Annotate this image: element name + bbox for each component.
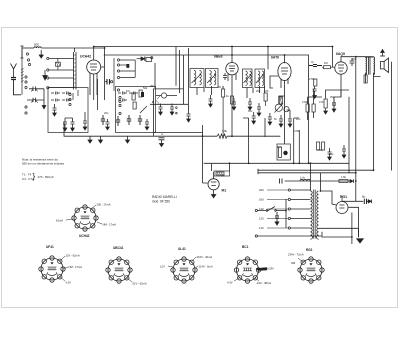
mid vertical wires [243, 118, 299, 163]
capacitor C5 with ground [106, 119, 110, 130]
capacitor C1 [101, 115, 105, 125]
resistor V2 cathode [230, 96, 233, 104]
V4 cathode resistor [324, 97, 327, 111]
wire speaker connections [366, 57, 381, 170]
resistor M1 input [216, 172, 224, 175]
zigzag resistor AVC [217, 134, 227, 138]
caps row box B [118, 92, 138, 102]
tube socket S1 UCH42 [72, 205, 98, 231]
callout S4 right [195, 266, 198, 268]
wire ground bus left section [64, 135, 280, 137]
ground M1 [211, 195, 215, 198]
power transformer T4 primary [311, 191, 313, 239]
svg-text:1M: 1M [324, 61, 328, 65]
svg-text:L th: L th [300, 176, 305, 180]
svg-text:140: 140 [259, 207, 264, 211]
svg-text:6,8k: 6,8k [222, 129, 228, 133]
svg-text:125: 125 [259, 217, 264, 221]
svg-text:20n: 20n [352, 57, 357, 61]
oscillator trimmer cluster [132, 90, 147, 113]
speaker top arrow [380, 50, 385, 57]
trimmer dark blob [126, 64, 129, 68]
filter cap 8u [364, 199, 368, 204]
padder box b [146, 58, 152, 62]
IF transformer T1 secondary [206, 69, 219, 88]
wire bus1 drop to V4 grid [332, 47, 334, 68]
cap box A inner [53, 104, 57, 116]
svg-text:mod. 9F 550: mod. 9F 550 [152, 200, 170, 204]
svg-text:m: m [161, 133, 163, 136]
svg-text:}: } [33, 172, 36, 181]
cap under pot b [288, 115, 292, 127]
wire heater bus [258, 169, 374, 174]
mains switch S2 [257, 207, 286, 212]
B line arrow [350, 179, 353, 183]
switch ladder [120, 60, 135, 78]
svg-text:1,5k: 1,5k [341, 175, 347, 179]
wire gang common [42, 89, 46, 109]
ground under L1 [39, 50, 43, 58]
callout S5 bottom right [255, 278, 259, 281]
speaker field coil [374, 57, 375, 75]
resistor det lower b [322, 142, 325, 150]
grid cap V1 [105, 79, 113, 85]
capacitor C3 [127, 115, 131, 125]
svg-text:470k: 470k [302, 100, 308, 104]
tube V2 6BE6 [226, 62, 238, 84]
wire V4 junction [326, 90, 349, 99]
output transformer T3 [366, 57, 371, 75]
ground coil tap [43, 70, 47, 80]
callout S4 left [168, 266, 173, 267]
svg-text:51V - 62mA: 51V - 62mA [133, 282, 147, 286]
caps row y115 b [268, 113, 272, 125]
IF transformer T1 primary [190, 69, 204, 88]
capacitor C6 with ground [145, 119, 149, 130]
capacitor C4 [138, 115, 142, 125]
svg-text:6AQ5: 6AQ5 [336, 52, 345, 56]
svg-text:UCH42: UCH42 [80, 55, 91, 59]
band switch wafer S1c [114, 58, 121, 115]
wire output transformer feed [341, 56, 374, 59]
svg-text:234V - 72mA: 234V - 72mA [288, 253, 304, 257]
svg-text:4,2V: 4,2V [66, 281, 72, 285]
ground stub left3 [126, 136, 130, 143]
wire plate drop [75, 48, 105, 67]
value label sprinkle [104, 57, 357, 179]
resistor 100k tap [56, 59, 61, 71]
callout S2 right top [60, 256, 65, 261]
osc wire verticals [150, 48, 189, 136]
V4 cathode cap [332, 99, 336, 109]
svg-text:160: 160 [259, 198, 264, 202]
svg-text:270k: 270k [309, 77, 315, 81]
cap near x344 [342, 145, 346, 158]
svg-text:25µ: 25µ [330, 95, 335, 99]
wire avc [154, 125, 208, 183]
svg-text:NM - 17mA: NM - 17mA [69, 265, 83, 269]
svg-text:+23V: +23V [268, 267, 275, 271]
tube socket S6 [298, 257, 324, 283]
wire mains bottom bus [257, 232, 322, 236]
wire lower bus AVC [204, 162, 349, 164]
svg-text:50n: 50n [248, 109, 253, 113]
cap IFT2 bottom [257, 103, 261, 116]
tube V4 6AQ5 [335, 62, 347, 97]
svg-text:214V - 5mA: 214V - 5mA [199, 265, 213, 269]
svg-text:T1 - T4: T1 - T4 [22, 173, 32, 177]
mid cluster cap2 [170, 104, 174, 116]
resistor on B+ line [339, 180, 348, 183]
wire tube V3 top stem [284, 55, 286, 63]
antenna coil L2 [74, 48, 77, 90]
svg-text:NM - 17mA: NM - 17mA [103, 223, 117, 227]
wire verticals to ground bus [98, 63, 323, 144]
wire tube V4 stem [340, 57, 342, 62]
wire tube V2 top stem [231, 47, 233, 63]
tube socket S3 [106, 257, 132, 283]
tube socket S2 [39, 256, 65, 282]
wire right edge return [391, 62, 393, 170]
IF transformer T2 secondary [255, 69, 265, 88]
volume potentiometer [275, 104, 290, 113]
wire secondary riser [320, 173, 322, 192]
resistor below OT [364, 75, 367, 83]
speaker LS1 [381, 58, 389, 73]
ground V4 cathode [324, 111, 328, 114]
wire drop x347 [348, 97, 350, 173]
wire B+ filter line [285, 180, 350, 182]
capacitor on bus with ground [159, 138, 165, 147]
caps row y115 [252, 112, 256, 124]
coupling cap 7p [309, 65, 322, 67]
svg-text:50k: 50k [143, 86, 148, 90]
tube socket S4 [171, 257, 197, 283]
diode arrow osc [137, 57, 145, 62]
callout S2 bottom [60, 277, 65, 281]
svg-text:4,3V: 4,3V [227, 281, 233, 285]
ground stub left2 [99, 136, 103, 143]
caps left of box c [83, 117, 87, 130]
resistor horizontal grid V4 [322, 66, 335, 69]
B plus arrow terminal [368, 200, 371, 204]
coupling cap V2 grid [223, 73, 227, 80]
coil box B oscillator [116, 87, 156, 133]
rectifier tube RG1 [336, 202, 348, 214]
cap 4n on B+ line [280, 179, 283, 184]
resistor under T1 [222, 86, 225, 136]
svg-text:UF41: UF41 [46, 245, 54, 249]
ground stub left1 [88, 136, 92, 143]
IF transformer T2 primary [243, 69, 253, 88]
band switch wafer S1a [21, 49, 31, 114]
mid cluster cap1 [159, 104, 163, 116]
selector common wire [285, 199, 287, 228]
wire left bus riser [64, 112, 85, 136]
svg-text:25n: 25n [150, 84, 155, 88]
volume pot box [277, 144, 290, 160]
wire primary riser [309, 163, 311, 191]
rectifier wiring [319, 191, 364, 244]
power transformer T4 secondary [317, 191, 319, 239]
svg-text:470: 470 [319, 100, 324, 104]
cap under V2 with ground [232, 98, 236, 110]
callout S3 bottom right [127, 278, 132, 282]
pickup tube M1 [208, 179, 219, 195]
wire drop x356 [355, 57, 357, 201]
antenna symbol [11, 64, 17, 78]
svg-text:22V - 62mA: 22V - 62mA [66, 254, 80, 258]
cap T2 ground [248, 98, 252, 110]
svg-text:100: 100 [264, 89, 269, 93]
tuning gang C-var a [29, 87, 44, 92]
wire top B+ bus [94, 46, 333, 48]
svg-text:BC1: BC1 [242, 245, 249, 249]
wire bus2 right drop [308, 55, 310, 163]
phono box [214, 171, 230, 176]
wire second bus [104, 54, 309, 56]
svg-text:UL41: UL41 [178, 247, 186, 251]
svg-text:M1: M1 [222, 189, 227, 193]
wire M1 box riser [228, 163, 230, 171]
ground V4 cap [332, 109, 336, 112]
caps left of box b [71, 118, 75, 131]
antenna coil L1 500 [21, 46, 75, 58]
caps row box A [51, 90, 78, 102]
mains terminal circles [255, 209, 257, 237]
svg-text:216V - 40mA: 216V - 40mA [197, 255, 213, 259]
line Lth choke [300, 179, 310, 181]
resistor det lower a [317, 142, 320, 150]
callout S4 top right [192, 257, 196, 261]
mains filter cap [275, 212, 279, 225]
coil box A antenna [48, 88, 88, 133]
tap voltage labels [259, 188, 264, 230]
svg-text:-24V - 38mA: -24V - 38mA [256, 281, 271, 285]
svg-text:6AT6: 6AT6 [271, 56, 279, 60]
ground cap under T1 [209, 95, 213, 107]
svg-text:20n: 20n [256, 89, 261, 93]
capacitor antenna series [11, 78, 21, 95]
oscillator trimmer [154, 89, 184, 114]
capacitor C2 [116, 116, 120, 126]
ground rectifier [357, 239, 364, 243]
wire screen stub [104, 47, 106, 100]
spec bracket text [22, 172, 54, 181]
wire tube V1 plate stem [93, 47, 95, 61]
volume pot knob [283, 151, 287, 155]
tuning gang C-var b [27, 98, 44, 103]
svg-text:500: 500 [34, 43, 39, 47]
svg-text:470 - 500 pF: 470 - 500 pF [38, 175, 55, 179]
tone cap 20n [350, 58, 355, 66]
arrow into S5 [256, 268, 267, 271]
transformer taps [267, 189, 311, 229]
callout S2 right mid [63, 267, 68, 269]
wire trimmer feed [175, 47, 177, 86]
svg-text:12V: 12V [160, 265, 165, 269]
svg-text:8µ: 8µ [362, 195, 366, 199]
svg-text:220: 220 [259, 188, 264, 192]
svg-text:RG1: RG1 [340, 195, 347, 199]
terminal circles box A top [69, 93, 71, 105]
tube V1 UCH42 [87, 60, 101, 100]
power transformer T4 core [314, 190, 316, 239]
tube socket S5 [234, 257, 260, 283]
callout S1 left [66, 219, 73, 220]
svg-text:6BE6: 6BE6 [214, 55, 223, 59]
svg-text:RG1: RG1 [306, 248, 313, 252]
osc cap ground [187, 111, 191, 122]
resistor right of V2 [264, 93, 267, 106]
V3 grid resistor [279, 97, 282, 105]
V3 grid loop [270, 76, 278, 88]
callout S1 top right [91, 205, 96, 209]
cap det lower ground [328, 148, 332, 160]
core marker box B [141, 92, 144, 97]
caps left of box a [63, 118, 67, 131]
wire IFT2 feed [267, 47, 269, 70]
detector resistor 470k [306, 79, 317, 112]
callout S5 bottom left [234, 278, 239, 281]
svg-text:200 - 17mA: 200 - 17mA [97, 203, 111, 207]
osc section circle [151, 57, 153, 59]
wire M1 riser [212, 163, 214, 178]
cap under pot a [279, 115, 283, 127]
svg-text:62mA: 62mA [56, 219, 63, 223]
svg-text:1M: 1M [126, 89, 130, 93]
svg-text:UBC41: UBC41 [113, 246, 124, 250]
svg-text:20n: 20n [104, 111, 109, 115]
svg-text:550 se non direttamente indi: 550 se non direttamente indicata [22, 161, 64, 165]
cap det with ground [313, 86, 317, 99]
tube V3 6AT6 [278, 63, 291, 89]
callout S6 top left [298, 258, 303, 262]
svg-text:UCH42: UCH42 [79, 234, 90, 238]
svg-text:110: 110 [259, 226, 264, 230]
coil taps [47, 57, 74, 88]
title text [152, 195, 177, 204]
svg-text:RADIO MARELLI: RADIO MARELLI [152, 195, 177, 199]
callout S1 right [97, 222, 102, 224]
